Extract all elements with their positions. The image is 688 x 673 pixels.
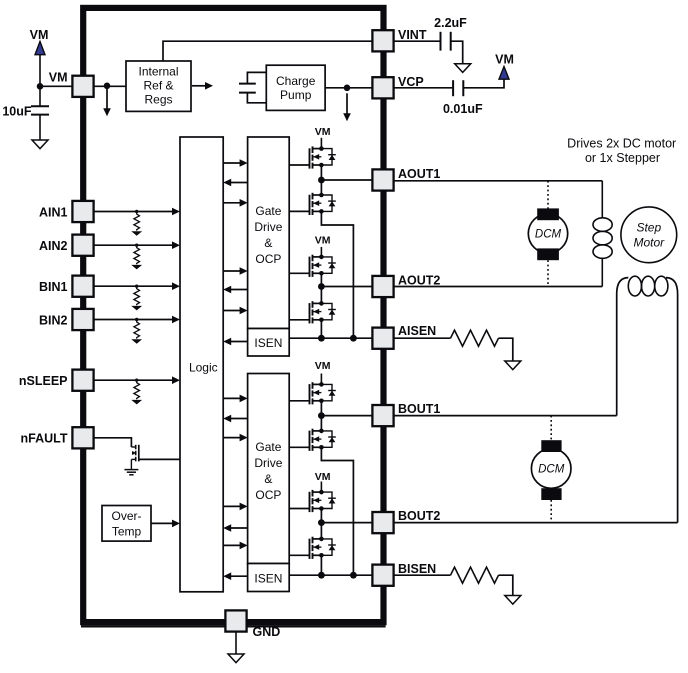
svg-text:nFAULT: nFAULT <box>21 432 68 446</box>
pin BOUT1 <box>372 405 393 426</box>
power rail VM (bridge B2) <box>320 482 322 493</box>
block U2 Charge Pump <box>266 65 325 110</box>
block U8 ISEN (B) <box>248 564 290 592</box>
node (internal VM) <box>104 83 111 90</box>
svg-text:VINT: VINT <box>398 28 427 42</box>
svg-text:Charge: Charge <box>276 74 316 88</box>
svg-text:AOUT2: AOUT2 <box>398 274 440 288</box>
svg-text:BISEN: BISEN <box>398 562 436 576</box>
svg-text:Internal: Internal <box>138 65 178 79</box>
pin BIN2 <box>72 309 93 330</box>
svg-text:ISEN: ISEN <box>254 571 282 585</box>
inductor winding B (stepper) <box>617 278 629 416</box>
pin nSLEEP <box>72 370 93 391</box>
svg-text:Temp: Temp <box>112 524 142 538</box>
arrow ISEN B to Logic <box>230 575 248 577</box>
pin AISEN <box>372 328 393 349</box>
svg-text:AOUT1: AOUT1 <box>398 167 440 181</box>
power rail VM (bridge B1) <box>320 374 322 385</box>
wire Charge Pump to VCP <box>325 87 372 89</box>
block U5 Gate Drive & OCP (A) <box>248 137 290 329</box>
pin BIN1 <box>72 276 93 297</box>
resistor R-AISEN (sense) <box>451 330 499 346</box>
transistor Q5 (power NMOS) <box>309 384 311 404</box>
wire BIN1 to Logic <box>94 285 173 287</box>
wire 2.2uF to ground <box>451 41 463 63</box>
svg-text:&: & <box>264 472 272 486</box>
wire 0.01uF to VM <box>463 80 504 88</box>
block U3 Logic <box>180 137 223 592</box>
wire BIN2 to Logic <box>94 319 173 321</box>
wire VM pin to Internal Ref <box>94 85 126 87</box>
pin VCP <box>372 77 393 98</box>
svg-text:ISEN: ISEN <box>254 336 282 350</box>
wire BOUT2 <box>321 522 372 524</box>
resistor R-AIN1 (input pulldown) <box>135 210 138 213</box>
svg-text:VM: VM <box>315 471 331 483</box>
wire AISEN external <box>394 337 451 339</box>
pin VM <box>72 76 93 97</box>
resistor R-AIN2 (input pulldown) <box>135 244 138 247</box>
svg-text:VM: VM <box>49 70 68 84</box>
transistor Q1 (power NMOS) <box>309 148 311 168</box>
svg-text:AIN1: AIN1 <box>39 205 68 219</box>
svg-text:&: & <box>264 236 272 250</box>
node AOUT1 <box>318 177 325 184</box>
arrow Internal Ref output <box>192 85 207 87</box>
svg-text:BIN2: BIN2 <box>39 313 68 327</box>
arrow ISEN A to Logic <box>230 341 248 343</box>
arrows Logic to Gate Drive B <box>224 397 242 399</box>
ground (10uF) <box>32 140 48 149</box>
wire AOUT2 external <box>394 286 603 288</box>
ground (GND pin) <box>228 654 244 663</box>
arrow VCP down <box>346 93 348 115</box>
pin nFAULT <box>72 427 93 448</box>
svg-text:DCM: DCM <box>535 229 562 241</box>
svg-text:Ref &: Ref & <box>143 79 173 93</box>
svg-text:Drive: Drive <box>254 456 282 470</box>
svg-text:Over-: Over- <box>112 509 142 523</box>
block U6 ISEN (A) <box>248 329 290 357</box>
pin AOUT2 <box>372 276 393 297</box>
node VCP junction <box>344 85 351 92</box>
wire Q6 source to BISEN net <box>321 447 353 575</box>
wire BISEN net <box>289 574 372 576</box>
svg-text:VM: VM <box>315 360 331 372</box>
capacitor C1 2.2uF <box>440 32 442 51</box>
svg-text:Gate: Gate <box>255 204 281 218</box>
motor M2 DCM <box>550 416 552 441</box>
svg-text:BOUT1: BOUT1 <box>398 402 440 416</box>
motor M3 Step Motor <box>621 207 677 263</box>
pin VINT <box>372 30 393 51</box>
IC boundary box <box>83 8 383 622</box>
pin BOUT2 <box>372 512 393 533</box>
wire Q7 source to BOUT2 node <box>320 509 322 539</box>
svg-text:Regs: Regs <box>144 93 172 107</box>
transistor Q8 (power NMOS) <box>309 539 311 559</box>
wire Q2 source to AISEN net <box>321 211 353 338</box>
svg-text:Motor: Motor <box>633 235 665 249</box>
svg-text:0.01uF: 0.01uF <box>443 102 483 116</box>
pin AOUT1 <box>372 169 393 190</box>
pin AIN2 <box>72 235 93 256</box>
transistor Q2 (power NMOS) <box>309 195 311 215</box>
arrows Logic to Gate Drive A <box>224 162 242 164</box>
wire VM to pin <box>40 85 72 87</box>
wire BOUT1 external <box>394 415 617 417</box>
wire BISEN resistor to ground <box>499 575 513 595</box>
pin AIN1 <box>72 201 93 222</box>
wire gate to Logic <box>139 458 180 460</box>
svg-text:OCP: OCP <box>255 252 281 266</box>
svg-text:DCM: DCM <box>538 464 565 476</box>
arrow internal VM down <box>106 88 108 110</box>
block U1 Internal Ref & Regs <box>126 61 191 111</box>
wire Q1 source to AOUT1 node <box>320 165 322 195</box>
arrow Over-Temp to Logic <box>151 522 173 524</box>
wire AIN2 to Logic <box>94 244 173 246</box>
node VM junction <box>37 83 44 90</box>
wire VINT to 2.2uF <box>394 40 440 42</box>
svg-text:VM: VM <box>30 28 49 42</box>
wire Q4 source to AISEN net <box>320 320 322 338</box>
capacitor 10uF <box>31 105 49 107</box>
wire AOUT2 <box>321 286 372 288</box>
svg-text:BOUT2: BOUT2 <box>398 509 440 523</box>
svg-text:Step: Step <box>636 220 661 234</box>
capacitor C2 0.01uF <box>452 80 454 96</box>
svg-text:Drive: Drive <box>254 220 282 234</box>
svg-text:or 1x Stepper: or 1x Stepper <box>585 151 660 165</box>
node AOUT2 <box>318 283 325 290</box>
svg-text:2.2uF: 2.2uF <box>434 16 467 30</box>
ground (nFAULT FET) <box>124 469 138 471</box>
pin BISEN <box>372 565 393 586</box>
transistor Q3 (power NMOS) <box>309 257 311 277</box>
svg-text:BIN1: BIN1 <box>39 280 68 294</box>
svg-text:nSLEEP: nSLEEP <box>19 374 68 388</box>
ground (BISEN) <box>505 596 521 605</box>
ground (2.2uF) <box>455 64 471 73</box>
wire AISEN net <box>289 337 372 339</box>
power rail VM (bridge A1) <box>320 138 322 149</box>
svg-text:OCP: OCP <box>255 488 281 502</box>
node BOUT2 <box>318 519 325 526</box>
transistor Q9 (nFAULT open drain) <box>131 446 135 448</box>
node BOUT1 <box>318 412 325 419</box>
svg-text:VM: VM <box>315 234 331 246</box>
svg-text:VM: VM <box>495 53 514 67</box>
resistor R-nSLEEP (input pulldown) <box>135 379 138 382</box>
wire AOUT1 <box>321 179 372 181</box>
wire AIN1 to Logic <box>94 211 173 213</box>
transistor Q6 (power NMOS) <box>309 431 311 451</box>
wire gate drives to FET gates <box>289 164 309 166</box>
wire BISEN external <box>394 574 451 576</box>
wire nFAULT to open-drain FET <box>94 438 131 447</box>
wire Internal Ref to VINT <box>163 41 372 61</box>
transistor Q7 (power NMOS) <box>309 492 311 512</box>
wire BOUT1 <box>321 415 372 417</box>
block U4 Over-Temp <box>102 506 151 542</box>
resistor R-BISEN (sense) <box>451 567 499 583</box>
power rail VM (bridge A2) <box>320 247 322 257</box>
wire nSLEEP to Logic <box>94 379 173 381</box>
block U7 Gate Drive & OCP (B) <box>248 374 290 564</box>
inductor winding A (stepper) <box>601 181 603 218</box>
motor M1 DCM <box>547 181 549 209</box>
svg-text:10uF: 10uF <box>2 105 32 119</box>
svg-text:AIN2: AIN2 <box>39 239 68 253</box>
node BISEN junction 2 <box>350 572 357 579</box>
svg-text:Drives 2x DC motor: Drives 2x DC motor <box>567 137 676 151</box>
node AISEN junction 1 <box>318 335 325 342</box>
svg-text:AISEN: AISEN <box>398 324 436 338</box>
wire VCP to 0.01uF <box>394 87 453 89</box>
wire AOUT1 external <box>394 180 603 182</box>
node BISEN junction 1 <box>318 572 325 579</box>
capacitor (charge pump flying cap) <box>247 72 266 83</box>
node AISEN junction 2 <box>350 335 357 342</box>
resistor R-BIN2 (input pulldown) <box>135 318 138 321</box>
wire Q3 source to AOUT2 node <box>320 273 322 303</box>
wire Q8 source to BISEN net <box>320 555 322 575</box>
svg-text:VM: VM <box>315 126 331 138</box>
wire BOUT2 external <box>394 522 678 524</box>
wire GND pin to ground <box>235 632 237 654</box>
svg-text:Logic: Logic <box>189 360 218 374</box>
transistor Q4 (power NMOS) <box>309 303 311 323</box>
svg-text:VCP: VCP <box>398 75 424 89</box>
wire AISEN resistor to ground <box>499 338 513 361</box>
power flag VM (top-left) <box>39 55 41 106</box>
power flag VM <box>499 67 509 80</box>
resistor R-BIN1 (input pulldown) <box>135 285 138 288</box>
svg-text:GND: GND <box>253 625 281 639</box>
svg-text:Gate: Gate <box>255 440 281 454</box>
pin GND <box>225 610 246 631</box>
wire Q5 source to BOUT1 node <box>320 401 322 431</box>
ground (AISEN) <box>505 361 521 370</box>
svg-text:Pump: Pump <box>280 88 312 102</box>
